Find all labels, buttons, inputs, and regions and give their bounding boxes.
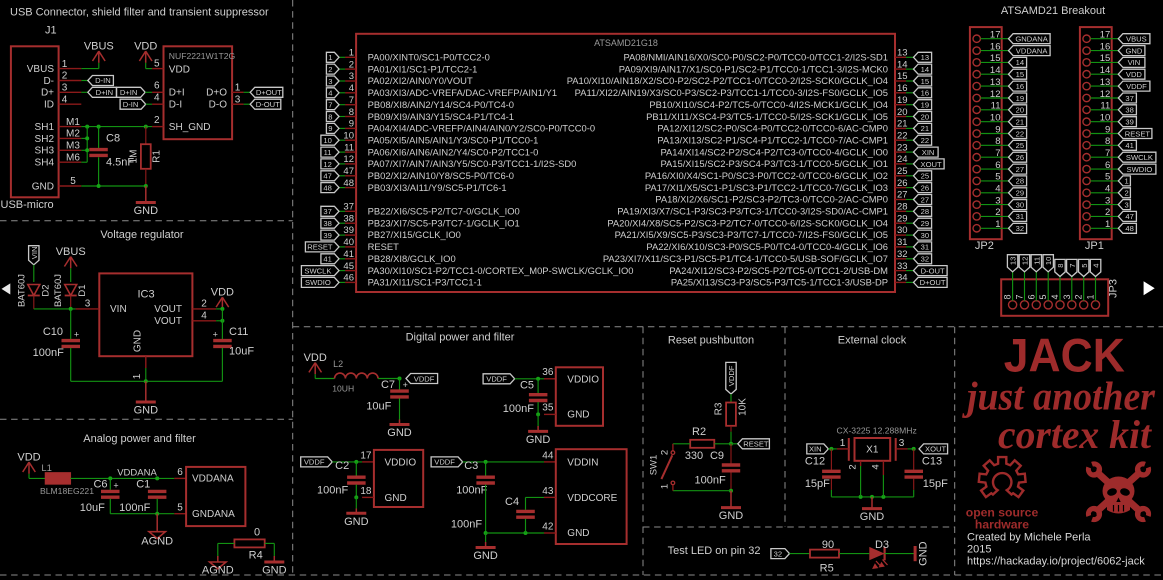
wire (730, 432, 732, 444)
JP2 pin 10 (973, 113, 1001, 126)
svg-text:4: 4 (349, 83, 354, 94)
svg-text:PA05/XI5/AIN5/AIN1/Y3/SC0-P1/T: PA05/XI5/AIN5/AIN1/Y3/SC0-P1/TCC0-1 (368, 134, 539, 145)
wire (980, 50, 1008, 52)
wire (81, 91, 88, 93)
svg-text:GND: GND (526, 434, 551, 446)
capacitor C12 (822, 471, 841, 477)
svg-text:D-OUT: D-OUT (256, 100, 280, 109)
wire (730, 491, 732, 508)
svg-text:38: 38 (323, 219, 331, 228)
svg-text:19: 19 (897, 95, 908, 106)
wire (1090, 204, 1118, 206)
svg-text:1: 1 (840, 438, 846, 449)
IC U2 NUF2221W1T2G (164, 46, 236, 139)
power VDD (17, 452, 40, 474)
svg-text:4: 4 (1092, 263, 1101, 267)
svg-text:D+O: D+O (206, 88, 227, 99)
J1 pin M3 (59, 141, 82, 152)
svg-text:PA16/XI0/X4/SC1-P0/SC3-P0/TCC2: PA16/XI0/X4/SC1-P0/SC3-P0/TCC2-0/TCC0-6/… (645, 170, 888, 181)
svg-text:SWCLK: SWCLK (304, 266, 331, 275)
ground (134, 203, 159, 218)
svg-text:cortex kit: cortex kit (998, 412, 1153, 457)
junction (97, 125, 101, 129)
node 10 (321, 135, 339, 145)
capacitor C9 (722, 465, 740, 471)
IC U1 VDDIO block 2 (374, 450, 423, 507)
node 1 (1118, 176, 1130, 186)
U1 pin 6 VDDANA (174, 467, 186, 478)
logo open source text (966, 506, 1039, 532)
J1 pin 4 (59, 94, 82, 105)
crystal X1 CX-3225 (837, 426, 917, 461)
diode D2 BAT60J (16, 274, 51, 307)
wire (339, 104, 345, 106)
svg-text:PA02/XI2/AIN0/Y0/VOUT: PA02/XI2/AIN0/Y0/VOUT (368, 75, 473, 86)
IC3 pin 4 (192, 310, 216, 321)
IC U1 analog supply block (186, 467, 245, 526)
node VDD (1118, 69, 1145, 79)
svg-text:5: 5 (70, 176, 76, 187)
wire (1035, 272, 1037, 301)
power VDD (304, 352, 327, 374)
junction (69, 307, 73, 311)
svg-text:D+IN: D+IN (120, 88, 138, 97)
svg-text:R3: R3 (714, 402, 725, 415)
node SWDIO (301, 277, 339, 287)
connector JP2 (970, 27, 1002, 252)
svg-text:C12: C12 (805, 456, 825, 468)
svg-text:100nF: 100nF (503, 403, 534, 415)
svg-text:ID: ID (44, 100, 54, 111)
svg-text:+: + (213, 330, 218, 340)
wire (98, 127, 100, 148)
svg-text:13: 13 (1009, 257, 1018, 265)
svg-text:5: 5 (1080, 263, 1089, 267)
svg-text:3: 3 (235, 94, 241, 105)
wire (980, 85, 1008, 87)
svg-text:VDDANA: VDDANA (117, 467, 157, 478)
svg-text:USB-micro: USB-micro (1, 199, 54, 211)
resistor R1 (141, 144, 151, 169)
JP2 pin 17 (973, 30, 1001, 43)
wire (1090, 192, 1118, 194)
JP2 pin 11 (973, 101, 1001, 114)
node 41 (1118, 140, 1136, 150)
wire (339, 80, 345, 82)
svg-text:Digital power and filter: Digital power and filter (406, 332, 515, 344)
svg-text:R5: R5 (820, 563, 834, 575)
svg-text:D1: D1 (77, 284, 88, 296)
JP3 pin 6 (1026, 294, 1040, 308)
wire (221, 348, 223, 381)
R3 labels (714, 398, 749, 416)
connector JP3 (1001, 279, 1119, 316)
R4 labels (249, 527, 263, 562)
svg-text:PA08/NMI/AIN16/X0/SC0-P0/SC2-P: PA08/NMI/AIN16/X0/SC0-P0/SC2-P0/TCC0-0/T… (624, 52, 889, 63)
node 19 (914, 100, 932, 110)
svg-text:7: 7 (1068, 263, 1077, 267)
LED D3 (869, 539, 889, 568)
node 38 (1118, 105, 1136, 115)
U1 pin 1 (345, 48, 490, 63)
U1 pin 22 (657, 130, 907, 145)
wire (98, 63, 100, 69)
svg-text:External clock: External clock (838, 334, 907, 346)
wire (906, 116, 914, 118)
svg-text:11: 11 (344, 142, 354, 153)
svg-text:XIN: XIN (809, 445, 822, 454)
U1 pin 40 (343, 237, 399, 252)
svg-text:22: 22 (1016, 129, 1024, 138)
svg-text:22: 22 (921, 136, 929, 145)
JP3 pin 8 (1003, 294, 1017, 308)
svg-text:PA14/XI14/SC2-P2/SC4-P2/TC3-0/: PA14/XI14/SC2-P2/SC4-P2/TC3-0/TCC0-4/GCL… (660, 146, 888, 157)
svg-text:PB22/XI6/SC5-P2/TC7-0/GCLK_IO0: PB22/XI6/SC5-P2/TC7-0/GCLK_IO0 (368, 206, 520, 217)
wire (145, 381, 147, 402)
capacitor C4 (516, 511, 535, 517)
wire (906, 92, 914, 94)
wire (537, 402, 539, 414)
svg-text:AGND: AGND (202, 565, 234, 577)
wire (906, 246, 914, 248)
node 2 (326, 64, 339, 74)
svg-text:GNDANA: GNDANA (192, 509, 235, 520)
svg-text:VDDF: VDDF (486, 375, 507, 384)
wire (1095, 277, 1097, 301)
JP3 pin 4 (1050, 294, 1064, 308)
svg-text:C1: C1 (136, 479, 150, 491)
wire (980, 192, 1008, 194)
U1 pin 46 (343, 273, 481, 288)
wire (1090, 180, 1118, 182)
svg-text:1: 1 (328, 53, 332, 62)
node 20 (914, 112, 932, 122)
node RESET (738, 439, 770, 449)
svg-text:10uF: 10uF (366, 401, 391, 413)
svg-text:IC3: IC3 (137, 289, 154, 301)
U2 pin 6 (152, 81, 163, 93)
JP2 pin 2 (973, 207, 1001, 220)
IC U1 VDDIO block (556, 367, 603, 426)
wire (730, 426, 732, 432)
wire (913, 479, 915, 490)
svg-text:37: 37 (1125, 94, 1133, 103)
node SWCLK (1118, 152, 1156, 162)
wire (29, 477, 46, 479)
svg-text:10UH: 10UH (332, 384, 354, 394)
svg-text:JP3: JP3 (1108, 279, 1120, 298)
svg-text:17: 17 (360, 450, 372, 461)
svg-text:C8: C8 (106, 132, 120, 144)
svg-text:VDDCORE: VDDCORE (567, 493, 617, 504)
svg-text:C5: C5 (520, 380, 534, 392)
svg-text:15: 15 (897, 71, 908, 82)
node 32 (771, 549, 790, 559)
wire (906, 127, 914, 129)
svg-text:31: 31 (1016, 212, 1024, 221)
wire (906, 175, 914, 177)
svg-text:ATSAMD21G18: ATSAMD21G18 (594, 38, 658, 48)
wire (70, 268, 72, 282)
svg-text:14: 14 (897, 59, 908, 70)
U1 pin 11 (344, 142, 538, 157)
U1 pin 42 (542, 521, 556, 533)
wire (871, 497, 873, 509)
wire (906, 56, 914, 58)
node 15 (914, 76, 932, 86)
node VDDF (431, 457, 463, 467)
U2 pin 5 (152, 59, 163, 70)
svg-text:2: 2 (154, 115, 160, 126)
svg-text:2: 2 (848, 464, 859, 469)
capacitor C8 (89, 150, 108, 156)
wire (830, 449, 832, 470)
wire (485, 542, 487, 548)
wire (217, 556, 219, 562)
U2 pin 4 (152, 92, 163, 104)
svg-text:26: 26 (1016, 153, 1024, 162)
svg-text:14: 14 (1016, 58, 1024, 67)
svg-text:7: 7 (1015, 294, 1025, 299)
svg-text:GND: GND (567, 410, 589, 421)
svg-text:PA06/XI6/AIN6/AIN2/Y4/SC0-P2/T: PA06/XI6/AIN6/AIN2/Y4/SC0-P2/TCC1-0 (368, 146, 539, 157)
wire (145, 169, 147, 186)
connector JP1 (1080, 27, 1112, 252)
sheet arrow right (1144, 281, 1155, 295)
svg-text:D-O: D-O (209, 99, 228, 110)
svg-text:PA31/XI11/SC1-P3/TCC1-1: PA31/XI11/SC1-P3/TCC1-1 (368, 277, 482, 288)
U1 pin 36 (542, 367, 556, 379)
svg-text:19: 19 (921, 101, 929, 110)
svg-text:PA22/XI6/X10/SC3-P0/SC5-P0/TC4: PA22/XI6/X10/SC3-P0/SC5-P0/TC4-0/TCC0-4/… (646, 241, 888, 252)
ground (387, 425, 412, 440)
svg-text:VDDIO: VDDIO (385, 457, 417, 468)
U1 pin 14 (619, 59, 908, 74)
capacitor C1 (148, 491, 167, 497)
JP2 pin 1 (973, 219, 1001, 232)
C8 labels (106, 132, 134, 168)
node 13 (1007, 255, 1017, 272)
node RESET (1118, 129, 1152, 139)
wire (1090, 109, 1118, 111)
svg-text:4: 4 (62, 94, 68, 105)
C2 labels (317, 460, 349, 497)
JP3 pin 2 (1074, 294, 1088, 308)
JP1 pin 4 (1083, 184, 1110, 197)
U1 pin 23 (660, 142, 907, 157)
svg-text:PA20/XI4/X8/SC5-P2/SC3-P2/TC7-: PA20/XI4/X8/SC5-P2/SC3-P2/TC7-0/TCC0-6/I… (607, 217, 888, 228)
wire (339, 151, 345, 153)
JP3 pin 5 (1038, 294, 1052, 308)
U1 pin 38 (343, 213, 519, 228)
node VBUS (1118, 34, 1150, 44)
svg-text:D+I: D+I (169, 88, 185, 99)
wire (332, 461, 362, 463)
svg-text:XOUT: XOUT (921, 160, 942, 169)
svg-text:23: 23 (897, 142, 908, 153)
svg-text:47: 47 (1125, 212, 1133, 221)
capacitor C2 (347, 477, 366, 483)
wire (145, 63, 147, 69)
node 21 (1009, 117, 1027, 127)
node D+OUT (250, 87, 283, 97)
node 27 (914, 195, 932, 205)
wire (145, 186, 147, 203)
svg-text:PA12/XI12/SC2-P0/SC4-P0/TCC2-0: PA12/XI12/SC2-P0/SC4-P0/TCC2-0/TCC0-6/AC… (657, 123, 888, 134)
node 26 (914, 183, 932, 193)
wire (81, 126, 152, 128)
wire (525, 519, 527, 533)
svg-text:27: 27 (897, 190, 908, 201)
wire (1071, 277, 1073, 301)
C3 labels (456, 460, 487, 497)
svg-text:VBUS: VBUS (1126, 35, 1147, 44)
svg-text:PA17/XI1/X5/SC1-P1/SC3-P1/TCC2: PA17/XI1/X5/SC1-P1/SC3-P1/TCC2-1/TCC0-7/… (645, 182, 888, 193)
svg-text:1: 1 (1086, 294, 1096, 299)
svg-text:M3: M3 (66, 141, 80, 152)
svg-text:3: 3 (899, 438, 905, 449)
J1 pin 1 (59, 59, 82, 70)
node 48 (321, 183, 339, 193)
svg-text:PA11/XI22/AIN19/X3/SC0-P3/SC2-: PA11/XI22/AIN19/X3/SC0-P3/SC2-P3/TCC1-1/… (575, 87, 888, 98)
U1 pin 30 (615, 225, 908, 240)
wire (790, 553, 811, 555)
svg-text:13: 13 (897, 48, 908, 59)
svg-text:SW1: SW1 (649, 455, 660, 476)
svg-text:PB08/XI8/AIN2/Y14/SC4-P0/TC4-0: PB08/XI8/AIN2/Y14/SC4-P0/TC4-0 (368, 99, 514, 110)
svg-text:21: 21 (921, 124, 929, 133)
svg-text:X1: X1 (866, 445, 879, 456)
svg-text:BAT60J: BAT60J (53, 274, 64, 307)
U1 pin 4 (345, 83, 557, 98)
wire (980, 227, 1008, 229)
U1 pin 24 (660, 154, 907, 169)
wire (730, 444, 732, 464)
capacitor C10 (62, 330, 81, 347)
capacitor C3 (476, 477, 495, 483)
U1 pin 2 (345, 59, 477, 74)
svg-text:PB27/XI15/GCLK_IO0: PB27/XI15/GCLK_IO0 (368, 229, 461, 240)
wire (1090, 168, 1118, 170)
U1 pin 16 (575, 83, 908, 98)
wire (830, 479, 832, 490)
svg-text:VDD: VDD (304, 352, 327, 364)
wire (399, 399, 401, 420)
svg-text:VDD: VDD (134, 41, 157, 53)
svg-text:NUF2221W1T2G: NUF2221W1T2G (169, 51, 236, 61)
wire (81, 149, 87, 151)
wire (70, 477, 174, 479)
svg-text:10uF: 10uF (80, 502, 105, 514)
node VIN (1118, 57, 1145, 67)
svg-text:GND: GND (860, 511, 885, 523)
svg-text:33: 33 (897, 261, 908, 272)
wire (913, 449, 915, 470)
svg-text:L1: L1 (41, 463, 52, 474)
node 15 (1009, 69, 1027, 79)
wire (906, 104, 914, 106)
ground (473, 548, 498, 563)
JP1 pin 1 (1083, 219, 1110, 232)
svg-text:100nF: 100nF (451, 518, 482, 530)
J1 pin names (27, 64, 55, 192)
wire (980, 133, 1008, 135)
wire (913, 490, 915, 497)
svg-text:hardware: hardware (975, 517, 1029, 531)
node 13 (914, 52, 932, 62)
wire (1090, 73, 1118, 75)
svg-text:9: 9 (328, 124, 332, 133)
wire (980, 156, 1008, 158)
node 41 (321, 254, 339, 264)
wire (980, 109, 1008, 111)
svg-text:42: 42 (542, 521, 554, 532)
svg-text:4: 4 (328, 89, 332, 98)
svg-text:90: 90 (822, 539, 834, 551)
wire (216, 308, 222, 310)
wire (980, 204, 1008, 206)
svg-text:D+OUT: D+OUT (256, 88, 282, 97)
svg-text:100nF: 100nF (456, 485, 487, 497)
svg-text:26: 26 (897, 178, 908, 189)
svg-text:C9: C9 (710, 450, 724, 462)
wire (339, 258, 345, 260)
JP2 pin 9 (973, 124, 1001, 137)
svg-text:34: 34 (897, 273, 908, 284)
junction (859, 495, 863, 499)
wire (145, 91, 152, 93)
U1 pin 33 (669, 261, 907, 276)
wire (355, 509, 357, 514)
node 11 (321, 147, 339, 157)
JP3 pin 3 (1062, 294, 1076, 308)
node 39 (321, 230, 339, 240)
node 3 (326, 76, 339, 86)
svg-text:PA04/XI4/ADC-VREFP/AIN4/AIN0/Y: PA04/XI4/ADC-VREFP/AIN4/AIN0/Y2/SC0-P0/T… (368, 123, 596, 134)
svg-text:21: 21 (897, 119, 908, 130)
svg-text:PA19/XI3/X7/SC1-P3/SC3-P3/TC3-: PA19/XI3/X7/SC1-P3/SC3-P3/TC3-1/TCC0-3/I… (617, 206, 888, 217)
resistor R4 (234, 539, 264, 547)
wire (265, 542, 275, 544)
node 8 (326, 112, 339, 122)
svg-text:PA24/XI12/SC3-P2/SC5-P2/TC5-0/: PA24/XI12/SC3-P2/SC5-P2/TC5-0/TCC1-2/USB… (669, 265, 888, 276)
JP3 pin 1 (1086, 294, 1100, 308)
wire (221, 309, 223, 339)
wire (906, 281, 914, 283)
wire (156, 499, 158, 514)
U1 pin 45 (343, 261, 633, 276)
wire (525, 497, 527, 509)
wire (273, 543, 275, 556)
node VDDF (726, 362, 736, 394)
node 11 (1031, 255, 1041, 272)
wire (831, 496, 913, 498)
wire (217, 543, 219, 556)
U1 pin 17 (360, 450, 374, 462)
wire (486, 532, 544, 534)
wire (1090, 215, 1118, 217)
svg-text:25: 25 (921, 172, 929, 181)
wire (730, 472, 732, 490)
node 12 (1019, 255, 1029, 272)
svg-text:GND: GND (719, 510, 744, 522)
node 32 (914, 254, 932, 264)
wire (980, 215, 1008, 217)
U1 pin 18 (360, 486, 374, 498)
svg-text:RESET: RESET (368, 241, 400, 252)
wire (399, 420, 401, 425)
svg-text:11: 11 (324, 148, 332, 157)
